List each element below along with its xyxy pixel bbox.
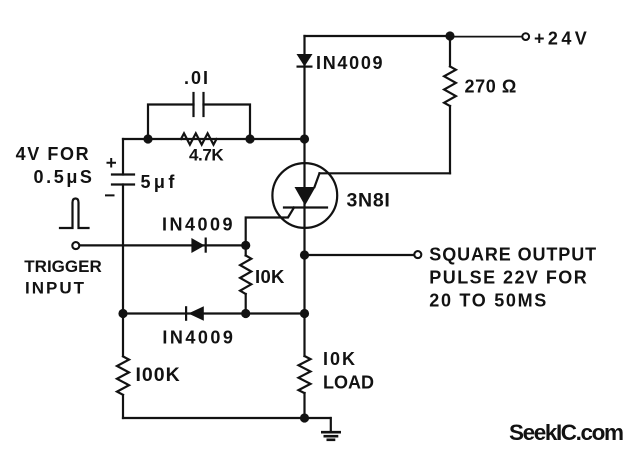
svg-text:I0K: I0K <box>323 349 357 369</box>
svg-text:INPUT: INPUT <box>25 278 86 297</box>
svg-text:I0K: I0K <box>255 266 285 287</box>
svg-text:270 Ω: 270 Ω <box>465 77 517 97</box>
svg-text:IN4009: IN4009 <box>162 215 235 235</box>
svg-text:SQUARE OUTPUT: SQUARE OUTPUT <box>429 245 597 265</box>
svg-text:LOAD: LOAD <box>323 373 374 393</box>
svg-text:SeekIC.com: SeekIC.com <box>509 420 623 445</box>
svg-text:IN4009: IN4009 <box>162 328 235 348</box>
svg-text:4.7K: 4.7K <box>189 146 224 165</box>
svg-text:+24V: +24V <box>534 29 590 49</box>
svg-text:I00K: I00K <box>136 364 181 386</box>
svg-text:5μf: 5μf <box>141 172 178 192</box>
svg-text:0.5μS: 0.5μS <box>34 167 95 187</box>
svg-text:3N8I: 3N8I <box>347 190 391 212</box>
svg-text:IN4009: IN4009 <box>316 53 384 73</box>
svg-text:.0I: .0I <box>184 68 210 88</box>
svg-text:4V FOR: 4V FOR <box>16 144 91 164</box>
svg-text:PULSE 22V FOR: PULSE 22V FOR <box>429 267 588 287</box>
svg-text:TRIGGER: TRIGGER <box>24 257 101 276</box>
svg-text:20 TO 50MS: 20 TO 50MS <box>429 290 548 310</box>
